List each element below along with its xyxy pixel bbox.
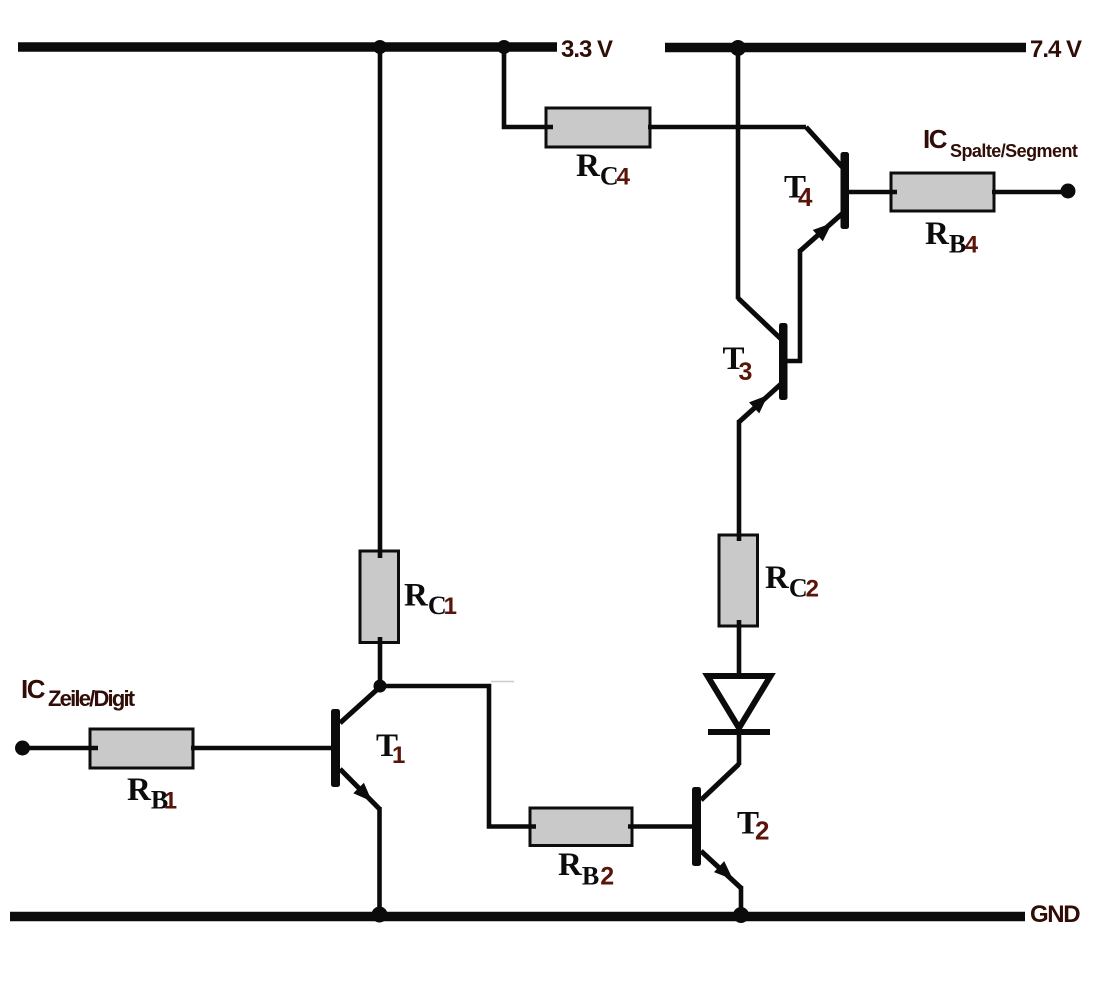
junction node on 7.4V rail at x738	[730, 40, 746, 56]
wire T4 base to RB4	[847, 190, 897, 195]
transistor T3	[738, 298, 788, 422]
ground rail	[10, 912, 1025, 922]
faint artifact line	[491, 681, 514, 683]
transistor T2	[692, 764, 741, 888]
wire 7.4V rail to T3 collector	[736, 47, 741, 299]
wire T2 emitter to ground	[739, 886, 744, 913]
svg-text:GND: GND	[1030, 901, 1080, 928]
junction node on 3.3V rail at x380	[373, 40, 387, 54]
wire RC2 to diode	[737, 620, 742, 678]
wire T3 emitter to RC2	[737, 420, 742, 541]
junction node on ground rail at x379	[372, 907, 388, 923]
resistor RC4	[546, 108, 650, 147]
node T1 collector	[374, 680, 387, 693]
terminal IC Zeile/Digit	[15, 741, 30, 756]
wire RB2 to T2 base	[628, 824, 693, 829]
transistor T4	[800, 127, 849, 251]
diode D1	[708, 676, 771, 732]
resistor RB2	[530, 808, 632, 846]
wire input terminal to RB1	[25, 746, 98, 751]
transistor T1	[331, 686, 381, 809]
resistor RB1	[90, 729, 193, 768]
wire T1 collector node to RB2	[380, 686, 536, 827]
resistor RB4	[891, 173, 994, 211]
power rail 7.4V	[665, 43, 1026, 53]
svg-text:3.3 V: 3.3 V	[561, 36, 613, 63]
svg-text:IC: IC	[21, 674, 46, 704]
resistor RC1	[360, 551, 399, 643]
wire RC1 to T1 collector node	[378, 637, 383, 687]
wire 3.3V rail down to RC4	[504, 47, 553, 127]
wire RC4 to T4 collector	[648, 125, 806, 130]
wire RB1 to T1 base	[191, 746, 332, 751]
resistor RC2	[719, 535, 758, 626]
svg-text:7.4 V: 7.4 V	[1030, 36, 1082, 63]
svg-text:Spalte/Segment: Spalte/Segment	[950, 141, 1078, 161]
wire 3.3V rail to RC1	[378, 47, 383, 558]
wire T4 emitter down to T3 base	[786, 249, 800, 361]
wire diode to T2 collector	[737, 733, 742, 765]
wire RB4 to output terminal	[992, 190, 1063, 195]
junction node on 3.3V rail at x504	[497, 40, 511, 54]
svg-text:Zeile/Digit: Zeile/Digit	[48, 686, 136, 711]
svg-text:IC: IC	[923, 124, 948, 154]
terminal IC Spalte/Segment	[1061, 184, 1076, 199]
power rail 3.3V	[18, 42, 557, 52]
wire T1 emitter to ground	[377, 807, 382, 913]
junction node on ground rail at x741	[733, 907, 749, 923]
